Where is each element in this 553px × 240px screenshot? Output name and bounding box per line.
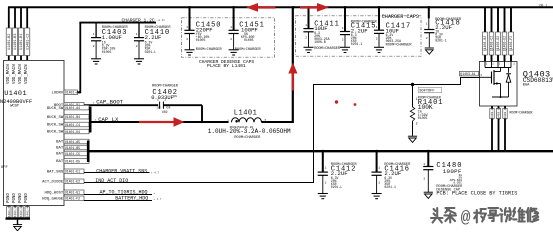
capacitor C1410 xyxy=(134,23,171,59)
svg-text:PGND: PGND xyxy=(13,193,17,203)
wire VDD_MAIN drop 1 xyxy=(8,7,10,60)
svg-text:2: 2 xyxy=(93,45,95,48)
svg-text:2: 2 xyxy=(376,37,378,40)
wire Q1403 drain drop 1 xyxy=(484,7,486,61)
svg-text:VDD_MAIN: VDD_MAIN xyxy=(19,64,23,84)
svg-text:2: 2 xyxy=(230,38,232,41)
svg-text:0.033UF: 0.033UF xyxy=(151,95,174,101)
capacitor C1416 xyxy=(372,151,412,193)
svg-text:2: 2 xyxy=(426,37,428,40)
pin name OFF xyxy=(1,166,9,170)
svg-text:OFF: OFF xyxy=(1,166,9,170)
wire IND_ACT_DIO to Q1403 gate net xyxy=(84,182,314,184)
ground C1415 xyxy=(340,47,350,52)
junction top rail x379 xyxy=(378,6,381,9)
transistor Q1403 PMOS load switch xyxy=(479,61,553,106)
junction battery rail x376.6 xyxy=(375,150,378,153)
ground C1412 xyxy=(318,194,328,199)
svg-text:U1401-E2: U1401-E2 xyxy=(65,180,80,184)
wire BATTERY_HDQ xyxy=(84,200,152,202)
wire riser LX output to top rail xyxy=(292,7,294,123)
svg-text:01005: 01005 xyxy=(196,38,206,42)
junction top rail x189.5 xyxy=(188,6,191,9)
wire BUCK_SW merge bar xyxy=(89,107,92,133)
net label Q1403-B2 xyxy=(483,32,488,55)
capacitor C1451 xyxy=(229,7,265,52)
svg-text:2: 2 xyxy=(186,38,188,41)
ground R1401 xyxy=(408,136,417,142)
pin BUCK_SW4 U1401 xyxy=(47,129,89,135)
ground C1480 xyxy=(424,192,433,198)
red annotation arrow right on CAP_LX wire xyxy=(139,117,185,126)
svg-text:U1401-A5: U1401-A5 xyxy=(65,140,80,144)
net label Q1403-C1 xyxy=(496,106,500,121)
net label Q1403-B1 xyxy=(490,106,494,121)
svg-text:1: 1 xyxy=(376,26,378,29)
wire VDD_MAIN drop 3 xyxy=(20,7,22,60)
svg-text:2: 2 xyxy=(325,182,327,185)
svg-text:«: « xyxy=(93,100,95,104)
wire C1402 to CAP_LX node xyxy=(163,105,202,121)
svg-text:U1401-E1: U1401-E1 xyxy=(65,170,80,174)
net name IND_ACT_DIO xyxy=(95,178,128,184)
svg-text:2: 2 xyxy=(136,45,138,48)
svg-text:1: 1 xyxy=(136,33,138,36)
svg-text:CHARGER_1.2C: CHARGER_1.2C xyxy=(122,17,155,23)
net label U1401-H2 xyxy=(25,205,29,220)
pin name VDD_MAIN 2 xyxy=(13,64,17,84)
svg-text:0603-25A: 0603-25A xyxy=(386,39,401,43)
junction top rail x293.4 xyxy=(292,6,295,9)
svg-text:BUCK_SW: BUCK_SW xyxy=(47,107,64,111)
svg-text:01005: 01005 xyxy=(102,50,112,54)
capacitor C1418 xyxy=(424,7,462,47)
svg-text:1: 1 xyxy=(93,33,95,36)
dashed group box charger desense caps xyxy=(182,18,275,69)
wire PGND 1 xyxy=(8,206,10,219)
pin name PGND 1 xyxy=(7,193,11,203)
svg-text:2: 2 xyxy=(416,122,418,126)
svg-text:BAT_SNS: BAT_SNS xyxy=(47,171,64,175)
red annotation dot 1 xyxy=(335,100,338,103)
svg-text:Q1403-D1: Q1403-D1 xyxy=(504,106,507,121)
junction battery rail x428.3 xyxy=(427,150,430,153)
junction battery rail x322.8 xyxy=(322,150,325,153)
svg-text:« 4.7: « 4.7 xyxy=(151,170,160,174)
pin name PGND 2 xyxy=(13,193,17,203)
net name CAP_LX xyxy=(95,116,119,123)
svg-text:ROOM=CHARGER: ROOM=CHARGER xyxy=(234,136,261,140)
svg-text:LODRV: LODRV xyxy=(52,92,64,96)
svg-text:Q1403-B1: Q1403-B1 xyxy=(491,106,494,121)
net label U1401-F1 xyxy=(7,205,11,220)
net name CAP_BOOT xyxy=(93,99,124,106)
net label U1401-B2 xyxy=(6,28,12,56)
svg-text:« 4.7: « 4.7 xyxy=(154,197,162,201)
svg-text:«1.33: «1.33 xyxy=(158,19,166,22)
ground C1450 xyxy=(185,50,195,55)
svg-text:HDQ_GAUGE: HDQ_GAUGE xyxy=(42,198,64,202)
inductor L1401 xyxy=(208,110,291,140)
svg-text:PGND: PGND xyxy=(25,193,29,203)
svg-text:Q1403-C2: Q1403-C2 xyxy=(490,36,494,51)
net label U1401-B1 xyxy=(18,28,24,56)
svg-text:0201-1: 0201-1 xyxy=(384,185,396,189)
wire VDD_MAIN drop 2 xyxy=(14,7,16,60)
svg-text:0201-1: 0201-1 xyxy=(435,39,447,43)
svg-text:ROOM=CHARGER: ROOM=CHARGER xyxy=(386,43,413,47)
wire Q1403 drain drop 5 xyxy=(510,7,512,61)
pin LODRV U1401 xyxy=(52,90,81,96)
capacitor C1480 xyxy=(423,151,517,197)
wire gate net riser x313 xyxy=(313,84,315,183)
svg-text:1: 1 xyxy=(378,166,380,169)
net label Q1403-D1 xyxy=(503,106,507,121)
svg-text:DB 1: DB 1 xyxy=(540,3,548,7)
pin name PGND 3 xyxy=(19,193,23,203)
red annotation dot 2 xyxy=(354,103,357,106)
wire top power rail PP_VCC_MAIN xyxy=(8,6,553,8)
svg-text:1: 1 xyxy=(186,26,188,29)
pin BAT1 U1401 xyxy=(56,139,89,145)
svg-text:U1401-C4: U1401-C4 xyxy=(65,123,80,127)
svg-text:U1401-B1: U1401-B1 xyxy=(20,34,24,50)
svg-text:16V: 16V xyxy=(156,107,161,110)
svg-text:PGND: PGND xyxy=(19,193,23,203)
net label Q1403-C2 xyxy=(489,32,494,55)
svg-text:2: 2 xyxy=(305,37,307,40)
capacitor C1411 xyxy=(303,7,341,51)
wire LODRV to CHARGER_1V2C rail xyxy=(78,22,81,93)
svg-text:ROOM=CHARGER: ROOM=CHARGER xyxy=(314,47,341,51)
wire Q1403 drain drop 3 xyxy=(497,7,499,61)
pin BAT_SNS U1401 xyxy=(47,169,84,175)
wire Q1403 drain drop 4 xyxy=(504,7,506,61)
svg-text:Q1403-C1: Q1403-C1 xyxy=(498,106,501,121)
wire AP_TO_TIGRIS_HDQ xyxy=(84,194,152,196)
net label U1401-C2 xyxy=(25,28,31,56)
svg-text:U1401-H1: U1401-H1 xyxy=(20,205,23,220)
svg-text:1: 1 xyxy=(305,24,307,27)
svg-text:U1401-A4: U1401-A4 xyxy=(65,106,80,110)
capacitor C1415 xyxy=(340,7,378,47)
svg-text:HDQ_HOST: HDQ_HOST xyxy=(45,192,64,196)
pin name VDD_MAIN 4 xyxy=(25,64,29,84)
svg-text:U1401-G1: U1401-G1 xyxy=(65,191,80,195)
svg-text:2: 2 xyxy=(423,178,425,181)
svg-text:10%: 10% xyxy=(173,95,178,98)
wire CAP_LX to L1401 xyxy=(90,121,229,123)
svg-text:U1401-B5: U1401-B5 xyxy=(65,146,80,150)
svg-text:Q1403-E2: Q1403-E2 xyxy=(503,36,507,51)
red annotation arrow left on top rail xyxy=(246,3,276,12)
ground C1403 xyxy=(91,59,101,64)
resistor R1401 xyxy=(410,85,443,136)
svg-text:U1401-F2: U1401-F2 xyxy=(65,197,80,201)
net name AP_TO_TIGRIS_HDQ xyxy=(100,189,156,195)
svg-text:2: 2 xyxy=(342,38,344,41)
net label Q1403-E2 xyxy=(502,32,507,55)
wire Q1403 source drop 3 xyxy=(504,106,506,151)
wire Q1403 source drop 1 xyxy=(491,106,493,151)
ground C1451 xyxy=(229,50,239,55)
net label U1401-H1 xyxy=(19,205,23,220)
svg-text:1: 1 xyxy=(325,166,327,169)
wire VDD_MAIN drop 4 xyxy=(26,7,28,60)
svg-text:1: 1 xyxy=(426,22,428,25)
svg-text:BUCK_SW: BUCK_SW xyxy=(47,131,64,135)
svg-text:PLACE BY L1401: PLACE BY L1401 xyxy=(207,63,246,69)
svg-text:@: @ xyxy=(461,208,471,227)
svg-text:U1401-F1: U1401-F1 xyxy=(8,205,11,220)
junction node gate/R1401 xyxy=(411,83,414,86)
svg-text:Q1403-B2: Q1403-B2 xyxy=(483,36,487,51)
ground C1416 xyxy=(372,194,382,199)
wire CHARGER_VBATT_SNS xyxy=(84,172,150,174)
svg-text:0201-L: 0201-L xyxy=(331,185,343,189)
wire BOOT to C1402 xyxy=(84,104,158,106)
pin BUCK_SW2 U1401 xyxy=(47,114,89,120)
net label Q1403-D2 xyxy=(496,32,501,55)
svg-text:BAT: BAT xyxy=(56,153,64,157)
svg-text:CHARGER_VBATT_SNS: CHARGER_VBATT_SNS xyxy=(96,168,147,174)
svg-text:ROOM=CHARGER: ROOM=CHARGER xyxy=(235,48,262,52)
junction top rail x345 xyxy=(344,6,347,9)
svg-text:1: 1 xyxy=(342,27,344,30)
svg-text:L1401: L1401 xyxy=(234,110,258,118)
red annotation arrow up on LX riser xyxy=(288,63,297,91)
ground C1411 xyxy=(304,47,314,52)
svg-text:U1401: U1401 xyxy=(4,90,27,98)
junction top rail x428.8 xyxy=(428,6,431,9)
svg-text:100%-B: 100%-B xyxy=(314,40,326,44)
net name BATTERY_HDQ xyxy=(115,195,162,201)
svg-text:BUCK_SW: BUCK_SW xyxy=(47,124,64,128)
svg-text:U1401-C2: U1401-C2 xyxy=(26,34,30,50)
dashed group box charger caps xyxy=(296,14,422,56)
svg-text:U1401-D4: U1401-D4 xyxy=(65,130,80,134)
svg-text:VDD_MAIN: VDD_MAIN xyxy=(13,64,17,84)
pin ACT_DIODE U1401 xyxy=(42,179,84,185)
capacitor C1417 xyxy=(374,7,412,47)
capacitor C1412 xyxy=(318,151,358,193)
pin BAT3 U1401 xyxy=(56,151,89,157)
svg-text:1.0UH-20%-3.2A-0.065OHM: 1.0UH-20%-3.2A-0.065OHM xyxy=(208,128,291,135)
pin BUCK_SW1 U1401 xyxy=(47,105,89,111)
capacitor C1403 xyxy=(91,23,129,59)
svg-text:ROOM=CHARGER: ROOM=CHARGER xyxy=(196,48,223,52)
svg-text:BAT: BAT xyxy=(56,147,64,151)
ground PGND xyxy=(13,225,22,231)
wire Q1403 drain drop 2 xyxy=(491,7,493,61)
wire PGND bus xyxy=(6,219,31,225)
svg-text:BAT: BAT xyxy=(56,160,64,164)
svg-text:U1401-B4: U1401-B4 xyxy=(65,115,80,119)
text ROOM=CHARGER Q1403 xyxy=(510,110,533,114)
net label U1401-B3 xyxy=(12,28,18,56)
svg-text:WCSP: WCSP xyxy=(10,105,19,109)
svg-text:01005: 01005 xyxy=(244,38,254,42)
pin BOOT U1401 xyxy=(54,102,84,108)
net label U1401-G2 xyxy=(13,205,17,220)
junction top rail x308.5 xyxy=(307,6,310,9)
wire gate net to Q1403 xyxy=(314,84,461,86)
wire net CHARGER_1.2C rail xyxy=(79,22,156,24)
svg-text:ROOM=CHARGER: ROOM=CHARGER xyxy=(510,110,533,114)
wire L1401 pin2 to riser xyxy=(262,121,293,123)
wire battery rail PP_VBATT xyxy=(87,150,553,152)
pin BUCK_SW3 U1401 xyxy=(47,122,89,128)
pin HDQ_GAUGE U1401 xyxy=(42,196,84,202)
net name CHARGER_VBATT_SNS xyxy=(96,168,159,174)
ground C1410 xyxy=(134,59,144,64)
wire PGND 3 xyxy=(20,206,22,219)
wire gate net jog into Q1403 xyxy=(460,78,479,86)
svg-text:U1401-H2: U1401-H2 xyxy=(26,205,29,220)
svg-text:U1401-C5: U1401-C5 xyxy=(65,152,80,156)
svg-text:BUCK_SW: BUCK_SW xyxy=(47,116,64,120)
svg-text:X5R: X5R xyxy=(166,107,171,110)
svg-text:PCB: PLACE CLOSE BY TIGRIS: PCB: PLACE CLOSE BY TIGRIS xyxy=(436,191,517,197)
net name CHARGER_1.2C xyxy=(122,17,166,23)
svg-text:CHARGER CAPS: CHARGER CAPS xyxy=(382,14,419,20)
junction top rail x233.6 xyxy=(232,6,235,9)
svg-text:U1401-B2: U1401-B2 xyxy=(8,34,12,50)
svg-text:U1401-G2: U1401-G2 xyxy=(14,205,17,220)
svg-text:BAT: BAT xyxy=(56,141,64,145)
wire BAT merge bar xyxy=(87,141,90,163)
svg-text:0201-L: 0201-L xyxy=(145,50,157,54)
svg-text:BGA: BGA xyxy=(523,84,530,88)
svg-text:U1401-B3: U1401-B3 xyxy=(14,34,18,50)
svg-text:Q1403-A1: Q1403-A1 xyxy=(460,72,475,76)
svg-text:2: 2 xyxy=(378,182,380,185)
ground C1418 xyxy=(425,48,434,54)
svg-text:ACT_DIODE: ACT_DIODE xyxy=(42,181,64,185)
svg-text:VDD_MAIN: VDD_MAIN xyxy=(7,64,11,84)
pin name VDD_MAIN 1 xyxy=(7,64,11,84)
svg-text:1: 1 xyxy=(227,120,229,123)
red annotation arrow right on top rail xyxy=(300,3,329,12)
watermark text TouTiao @YangGe xyxy=(431,208,538,227)
pin name VDD_MAIN 3 xyxy=(19,64,23,84)
svg-text:BATTERY_HDQ: BATTERY_HDQ xyxy=(115,195,148,201)
capacitor C1402 bootstrap xyxy=(151,85,179,115)
pin BAT2 U1401 xyxy=(56,145,89,151)
wire PGND 2 xyxy=(14,206,16,219)
capacitor C1450 xyxy=(184,7,222,52)
pin HDQ_HOST U1401 xyxy=(45,190,84,196)
svg-text:0201-1: 0201-1 xyxy=(351,42,363,46)
svg-text:IND_ACT_DIO: IND_ACT_DIO xyxy=(95,178,128,184)
svg-text:U1401-D5: U1401-D5 xyxy=(65,159,80,163)
svg-text:VDD_MAIN: VDD_MAIN xyxy=(25,64,29,84)
svg-text:SOFTOFF: SOFTOFF xyxy=(419,89,434,93)
svg-text:Q1403-D2: Q1403-D2 xyxy=(496,36,500,51)
svg-text:Q1403-F2: Q1403-F2 xyxy=(509,36,513,51)
ground C1417 xyxy=(374,47,384,52)
svg-text:1: 1 xyxy=(230,26,232,29)
net label Q1403-A1 xyxy=(460,71,479,76)
svg-text:01005: 01005 xyxy=(418,116,428,120)
svg-text:402: 402 xyxy=(162,110,168,114)
pin BAT4 U1401 xyxy=(56,159,89,165)
IC U1401 SN2400B0VFF charger (Tigris) xyxy=(0,61,64,206)
svg-text:PGND: PGND xyxy=(7,193,11,203)
wire Q1403 source drop 2 xyxy=(498,106,500,151)
pin name PGND 4 xyxy=(25,193,29,203)
wire PGND 4 xyxy=(26,206,28,219)
net label Q1403-F2 xyxy=(509,32,514,55)
svg-text:1: 1 xyxy=(423,163,425,166)
